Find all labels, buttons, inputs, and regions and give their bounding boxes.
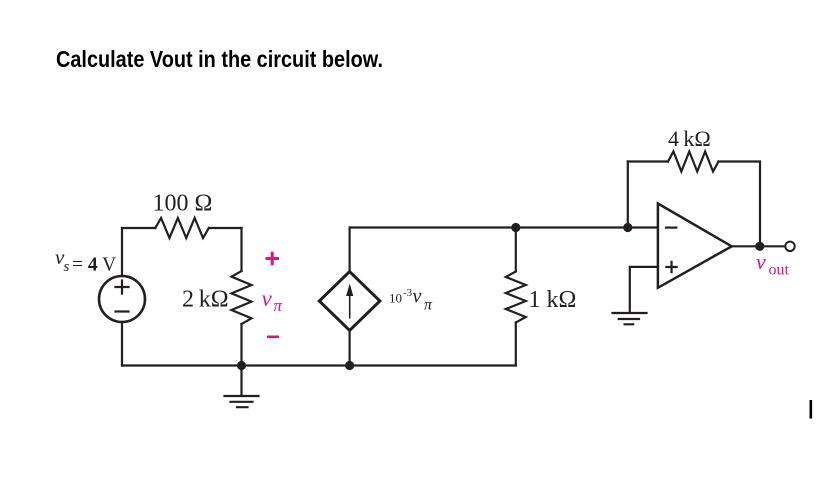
wire feedback top left xyxy=(628,160,668,162)
svg-text:v: v xyxy=(262,286,273,311)
wire 1k branch bottom xyxy=(515,323,517,366)
wire middle top rail to op-amp xyxy=(350,226,658,228)
text cursor bar xyxy=(810,400,813,419)
ground symbol (bottom, under 2k node) xyxy=(240,366,242,395)
svg-text:π: π xyxy=(424,297,433,314)
wire dependent source bottom xyxy=(349,330,351,365)
node junction dot at 2k/ground xyxy=(237,361,246,370)
wire dependent source top xyxy=(349,228,351,272)
label vpi plus sign (magenta) xyxy=(266,252,280,265)
wire 1k branch top xyxy=(515,228,517,272)
svg-text:v: v xyxy=(413,286,422,308)
svg-text:4 kΩ: 4 kΩ xyxy=(668,126,711,151)
wire feedback left vertical xyxy=(627,162,629,229)
op-amp plus input symbol xyxy=(666,262,676,272)
wire feedback top right xyxy=(719,162,761,247)
svg-text:10: 10 xyxy=(389,291,402,306)
wire top-left rail xyxy=(122,227,242,229)
voltage source plus sign xyxy=(116,281,129,294)
op-amp U1 triangle xyxy=(658,204,732,288)
node junction dot at feedback tap xyxy=(623,223,632,232)
label vpi minus sign (magenta) xyxy=(267,335,279,338)
svg-text:100 Ω: 100 Ω xyxy=(153,191,213,217)
op-amp minus input symbol xyxy=(666,227,676,229)
output terminal open circle xyxy=(785,242,794,251)
svg-text:π: π xyxy=(274,296,283,315)
wire left vertical (source branch) xyxy=(121,228,123,366)
svg-text:1 kΩ: 1 kΩ xyxy=(529,287,577,313)
resistor R4 4 kohm xyxy=(668,152,719,172)
svg-text:Calculate Vout in the circuit: Calculate Vout in the circuit below. xyxy=(56,46,383,72)
wire 2k branch top xyxy=(240,228,242,271)
svg-text:2 kΩ: 2 kΩ xyxy=(182,287,229,313)
resistor R1 100 ohm xyxy=(155,218,209,238)
svg-text:v: v xyxy=(756,249,766,274)
dependent current source G1 (diamond) xyxy=(319,272,380,331)
node output junction dot xyxy=(755,242,764,251)
resistor R3 1 kohm xyxy=(506,272,526,323)
wire output xyxy=(732,245,786,247)
wire 2k branch bottom xyxy=(240,324,242,366)
node junction dot at 1k top xyxy=(511,223,520,232)
svg-text:-3: -3 xyxy=(403,287,413,299)
svg-text:= 4 V: = 4 V xyxy=(72,255,116,276)
wire plus input to ground xyxy=(630,267,658,312)
wire bottom rail xyxy=(122,364,516,366)
voltage source VS circle xyxy=(99,276,145,322)
node junction dot at dependent source bottom xyxy=(345,361,354,370)
ground symbol (op-amp plus input) xyxy=(613,313,647,324)
voltage source minus sign xyxy=(116,310,129,312)
dependent source arrow xyxy=(349,294,351,319)
svg-text:s: s xyxy=(64,259,70,275)
resistor R2 2 kohm xyxy=(232,271,252,324)
svg-text:out: out xyxy=(769,262,790,279)
